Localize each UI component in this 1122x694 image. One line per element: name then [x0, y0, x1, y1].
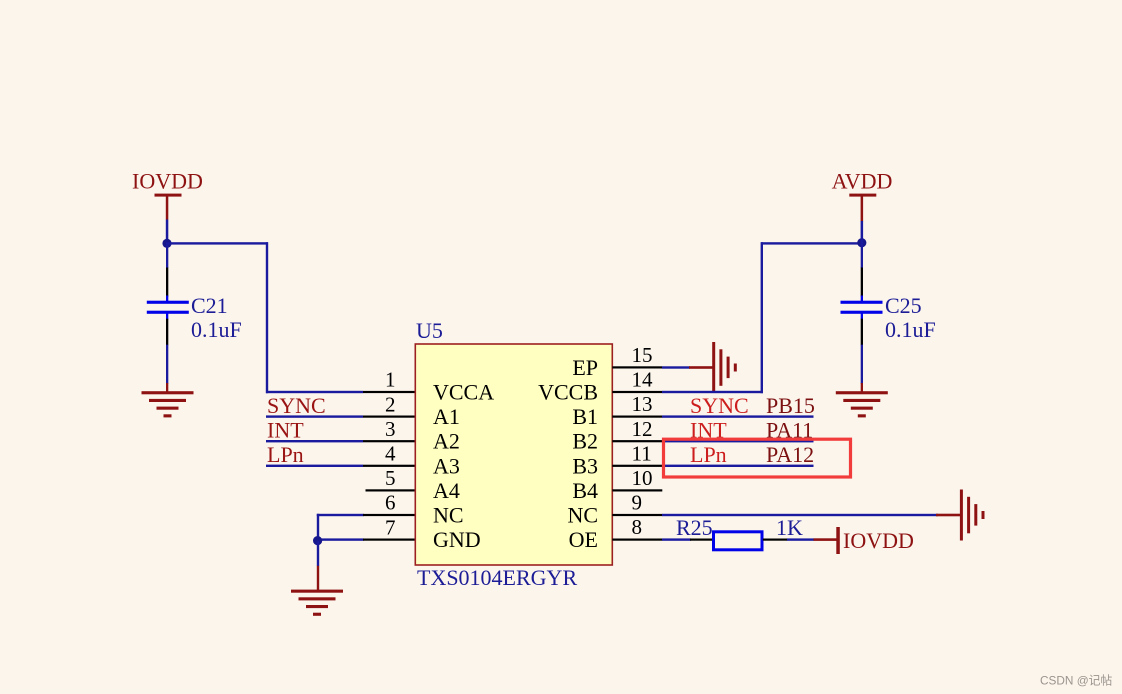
svg-text:A4: A4 [433, 478, 460, 503]
svg-text:AVDD: AVDD [832, 169, 893, 194]
ground below pin7 [291, 590, 343, 616]
ground below C25 [836, 391, 888, 417]
svg-text:VCCA: VCCA [433, 380, 494, 405]
svg-text:R25: R25 [676, 515, 713, 540]
svg-text:7: 7 [385, 515, 396, 539]
pin 12 stub [612, 440, 662, 442]
svg-text:1: 1 [385, 368, 396, 392]
capacitor C21 [147, 243, 242, 384]
svg-text:GND: GND [433, 527, 481, 552]
svg-text:INT: INT [267, 417, 304, 442]
node IOVDD junction [162, 239, 171, 248]
pin 9 stub [612, 514, 662, 516]
svg-text:SYNC: SYNC [267, 393, 326, 418]
pin 1 stub [363, 391, 415, 393]
svg-text:B2: B2 [572, 429, 598, 454]
svg-text:B1: B1 [572, 404, 598, 429]
svg-text:PB15: PB15 [766, 393, 815, 418]
wire vertical down to ground [317, 541, 319, 567]
wire pin14 horizontal [662, 391, 763, 393]
svg-text:6: 6 [385, 491, 396, 515]
svg-text:TXS0104ERGYR: TXS0104ERGYR [417, 565, 577, 590]
svg-text:9: 9 [632, 491, 643, 515]
capacitor C25 [841, 243, 936, 384]
wire red lead to ground [317, 566, 319, 592]
power AVDD [832, 169, 893, 222]
wire pin1 horizontal [266, 391, 363, 393]
svg-text:14: 14 [632, 368, 654, 392]
svg-text:NC: NC [433, 503, 464, 528]
svg-text:A1: A1 [433, 404, 460, 429]
wire IOVDD stem [166, 220, 169, 244]
ground EP (right-pointing) [689, 342, 737, 393]
power IOVDD (pin8 pull-up) [814, 527, 914, 554]
ground pin9 (right-pointing) [936, 490, 985, 541]
pin 11 stub [612, 465, 662, 467]
wire vertical up to AVDD row [761, 242, 763, 393]
pin 14 stub [612, 391, 662, 393]
svg-text:5: 5 [385, 466, 396, 490]
wire horizontal to AVDD junction [761, 242, 862, 244]
svg-text:8: 8 [632, 515, 643, 539]
wire pin6 to vertical [317, 514, 364, 516]
svg-text:11: 11 [632, 441, 652, 465]
pin 15 stub [612, 366, 662, 368]
svg-text:A3: A3 [433, 453, 460, 478]
pin 3 stub [363, 440, 415, 442]
svg-text:10: 10 [632, 466, 653, 490]
node pin7 junction [313, 536, 322, 545]
svg-text:B4: B4 [572, 478, 598, 503]
svg-text:0.1uF: 0.1uF [191, 317, 242, 342]
svg-text:IOVDD: IOVDD [132, 169, 203, 194]
wire vertical pin6 to pin7 [317, 514, 319, 542]
op-amp U5 body (IC TXS0104ERGYR) [415, 344, 612, 565]
wire vertical corner down to pin1 row [266, 242, 268, 393]
svg-text:LPn: LPn [690, 442, 727, 467]
wire pin4 [266, 465, 363, 467]
pin 7 stub [363, 539, 415, 541]
svg-text:NC: NC [567, 503, 598, 528]
svg-text:12: 12 [632, 417, 653, 441]
pin 13 stub [612, 416, 662, 418]
svg-text:CSDN @记帖: CSDN @记帖 [1040, 674, 1112, 688]
resistor R25 [676, 515, 803, 550]
svg-text:3: 3 [385, 417, 396, 441]
wire junction to corner [166, 242, 268, 244]
power IOVDD [132, 169, 203, 220]
wire resistor to IOVDD [787, 538, 814, 540]
svg-text:C25: C25 [885, 293, 922, 318]
svg-text:PA12: PA12 [766, 442, 814, 467]
wire pin8 to resistor [662, 538, 691, 540]
svg-text:13: 13 [632, 392, 653, 416]
wire pin3 [266, 440, 363, 442]
svg-text:B3: B3 [572, 453, 598, 478]
svg-text:A2: A2 [433, 429, 460, 454]
svg-text:EP: EP [572, 355, 598, 380]
highlight box around LPn PA12 [664, 439, 851, 477]
svg-text:OE: OE [569, 527, 598, 552]
wire pin15 to ground [662, 366, 690, 368]
svg-text:4: 4 [385, 442, 396, 466]
svg-text:LPn: LPn [267, 442, 304, 467]
pin 4 stub [363, 465, 415, 467]
wire AVDD stem [861, 221, 864, 244]
pin 5 stub [366, 489, 416, 491]
svg-text:U5: U5 [416, 318, 443, 343]
svg-text:IOVDD: IOVDD [843, 528, 914, 553]
wire cap to ground (red lead) [861, 383, 863, 393]
node AVDD junction [857, 238, 866, 247]
ground below C21 [142, 391, 194, 417]
pin 2 stub [363, 416, 415, 418]
pin 6 stub [363, 514, 415, 516]
svg-text:C21: C21 [191, 293, 228, 318]
wire pin2 [266, 415, 363, 417]
svg-text:15: 15 [632, 343, 653, 367]
wire pin9 net [662, 514, 938, 516]
pin 10 stub [612, 489, 662, 491]
svg-text:0.1uF: 0.1uF [885, 317, 936, 342]
wire pin12 net [662, 440, 814, 442]
svg-text:SYNC: SYNC [690, 393, 749, 418]
wire pin11 net [662, 465, 814, 467]
svg-text:2: 2 [385, 392, 396, 416]
wire cap to ground (red lead) [166, 383, 168, 393]
wire pin7 to vertical [317, 538, 364, 540]
wire pin13 net [662, 415, 814, 417]
pin 8 stub [612, 539, 662, 541]
svg-text:1K: 1K [776, 515, 803, 540]
svg-text:VCCB: VCCB [538, 380, 598, 405]
